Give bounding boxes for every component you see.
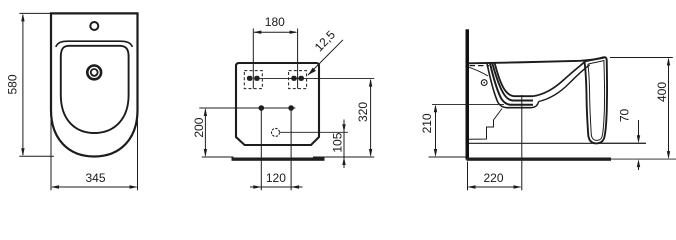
svg-text:200: 200 <box>192 117 206 137</box>
fixing hole right hatched slot <box>291 76 304 81</box>
bowl back-to-trap line 3 <box>490 64 533 105</box>
dimension 400 <box>608 58 676 160</box>
dimension 345 <box>51 113 138 190</box>
small open hole <box>272 128 280 136</box>
top view outer outline <box>51 13 138 156</box>
fixing hole left hatched slot <box>247 76 260 81</box>
svg-text:120: 120 <box>266 171 286 185</box>
dimension 220 <box>468 162 522 191</box>
leader 12,5 <box>308 28 343 75</box>
faucet hole side <box>481 80 487 86</box>
fixing hole left dashed square <box>244 71 262 89</box>
top view rear rim line <box>56 41 133 47</box>
svg-text:105: 105 <box>331 132 345 152</box>
floor shadow bar middle <box>232 158 325 161</box>
back foot step outline <box>469 109 502 140</box>
ledge underside line <box>469 67 488 76</box>
fixing hole right dashed square <box>289 71 307 89</box>
bowl back-to-trap line 1 (inner) <box>495 64 533 97</box>
top surface <box>469 58 604 64</box>
supply hole dot right <box>288 105 294 111</box>
dimension 120 <box>250 108 303 190</box>
front wall loop inner <box>588 61 605 141</box>
svg-text:320: 320 <box>356 102 370 122</box>
supply hole dot left <box>259 105 265 111</box>
front wall loop outer <box>585 57 607 143</box>
svg-text:180: 180 <box>265 15 285 29</box>
top view inner basin <box>61 46 129 133</box>
drain ring outer <box>87 66 101 80</box>
bowl inner curve 2 <box>539 65 590 102</box>
svg-text:580: 580 <box>5 74 19 94</box>
wall line <box>466 29 470 159</box>
dimension 580 <box>5 13 54 156</box>
bowl back-to-trap line 2 <box>492 64 533 101</box>
trap hook <box>531 102 539 108</box>
floor shadow bar right <box>467 158 612 161</box>
svg-text:220: 220 <box>483 171 503 185</box>
hidden dashed edge <box>470 65 490 67</box>
svg-text:400: 400 <box>655 82 669 102</box>
dimension 320 <box>260 79 375 157</box>
dimension 105 <box>280 120 348 169</box>
faucet hole <box>90 22 98 30</box>
dimension 200 <box>192 108 295 157</box>
svg-text:70: 70 <box>618 109 632 123</box>
bowl inner curve 1 <box>533 62 585 96</box>
dimension 210 <box>420 104 504 157</box>
drain pipe line <box>521 95 523 190</box>
svg-text:345: 345 <box>85 171 105 185</box>
dimension 180 <box>253 15 297 88</box>
underside line <box>469 142 646 144</box>
drain ring inner <box>91 69 98 76</box>
rear view body outline <box>236 63 319 145</box>
svg-text:210: 210 <box>420 113 434 133</box>
dimension 70 <box>600 109 646 170</box>
bowl back-to-trap line 4 (outer) <box>487 64 531 108</box>
